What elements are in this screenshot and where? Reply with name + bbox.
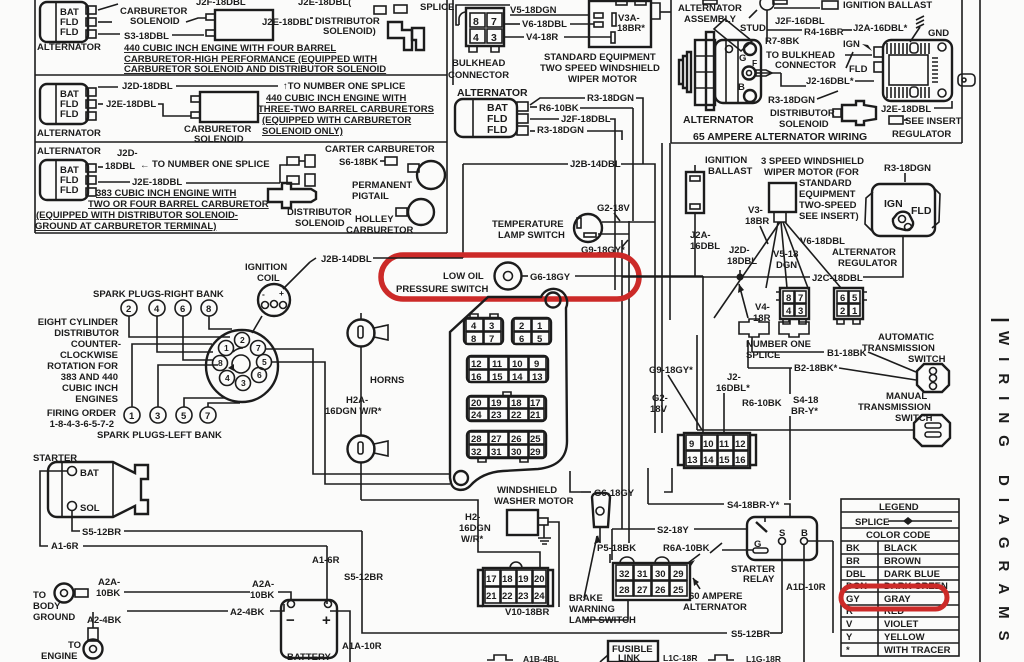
svg-text:CONNECTOR: CONNECTOR <box>775 60 836 71</box>
svg-text:14: 14 <box>703 455 714 466</box>
svg-text:HOLLEY: HOLLEY <box>355 214 394 225</box>
horn 1 <box>348 313 389 347</box>
svg-text:THREE-TWO BARREL CARBURETORS: THREE-TWO BARREL CARBURETORS <box>258 104 434 115</box>
svg-text:DISTRIBUTOR: DISTRIBUTOR <box>770 108 835 119</box>
spark plugs left bank <box>97 407 222 441</box>
svg-text:5: 5 <box>181 411 187 422</box>
wire A2-4BK <box>87 604 284 628</box>
svg-text:BODY: BODY <box>33 601 61 612</box>
svg-text:16DBL: 16DBL <box>690 241 720 252</box>
svg-text:IGN: IGN <box>884 198 903 210</box>
svg-text:28: 28 <box>471 434 482 445</box>
svg-text:29: 29 <box>673 569 684 580</box>
svg-text:ASSEMBLY: ASSEMBLY <box>684 14 737 25</box>
svg-text:ALTERNATOR: ALTERNATOR <box>37 128 101 139</box>
svg-text:25: 25 <box>530 434 541 445</box>
svg-text:1: 1 <box>129 411 135 422</box>
svg-text:BAT: BAT <box>80 468 99 479</box>
svg-text:(EQUIPPED WITH CARBURETOR: (EQUIPPED WITH CARBURETOR <box>262 115 411 126</box>
wires R4 J2A 65amp <box>767 16 949 42</box>
svg-text:V5-18: V5-18 <box>773 249 798 260</box>
svg-text:STUD: STUD <box>740 23 766 34</box>
svg-text:FLD: FLD <box>60 109 79 120</box>
svg-text:S5-12BR: S5-12BR <box>82 527 121 538</box>
svg-text:SOLENOID: SOLENOID <box>130 16 180 27</box>
svg-text:4: 4 <box>786 306 792 317</box>
svg-text:7: 7 <box>256 343 261 353</box>
svg-text:L1G-18R: L1G-18R <box>746 654 781 662</box>
wires starter S5 A1 <box>40 471 727 633</box>
wire B1-18BK <box>697 335 916 430</box>
svg-text:J2F-18DBL: J2F-18DBL <box>561 114 611 125</box>
svg-text:CUBIC INCH: CUBIC INCH <box>62 383 118 394</box>
svg-text:R3-18DGN: R3-18DGN <box>587 93 634 104</box>
svg-text:R6A-10BK: R6A-10BK <box>663 543 710 554</box>
svg-text:SOLENOID): SOLENOID) <box>323 26 376 37</box>
wire S4-18BR-Y lower <box>648 468 790 517</box>
3 speed wiper motor symbol <box>714 183 841 318</box>
svg-text:BROWN: BROWN <box>884 556 921 567</box>
svg-text:TWO OR FOUR BARREL CARBURETOR: TWO OR FOUR BARREL CARBURETOR <box>88 199 269 210</box>
svg-text:G6-18GY: G6-18GY <box>530 272 571 283</box>
svg-text:G6-18GY: G6-18GY <box>594 488 635 499</box>
svg-text:*: * <box>846 645 850 656</box>
svg-text:17: 17 <box>486 574 497 585</box>
right page rule <box>979 0 981 662</box>
wire S5-12BR lower right <box>731 541 833 640</box>
svg-text:VIOLET: VIOLET <box>884 619 919 630</box>
svg-text:J2E-18DBL: J2E-18DBL <box>106 99 156 110</box>
svg-text:3: 3 <box>155 411 160 422</box>
starter relay <box>731 517 817 585</box>
wire J2B-14DBL upper <box>463 159 655 258</box>
svg-text:Y: Y <box>846 632 853 643</box>
65 ampere box border <box>671 0 962 143</box>
svg-text:19: 19 <box>518 574 529 585</box>
svg-text:IGNITION: IGNITION <box>245 262 287 273</box>
to body ground <box>33 584 88 624</box>
svg-text:GROUND: GROUND <box>33 612 75 623</box>
svg-text:5: 5 <box>262 357 267 367</box>
svg-text:21: 21 <box>530 410 541 421</box>
wire R6A-10BK <box>663 543 722 566</box>
svg-text:8: 8 <box>206 304 211 315</box>
svg-text:SEE INSERT): SEE INSERT) <box>799 211 859 222</box>
svg-text:28: 28 <box>619 585 630 596</box>
svg-text:4: 4 <box>154 304 160 315</box>
svg-text:DISTRIBUTOR: DISTRIBUTOR <box>54 328 119 339</box>
svg-text:R6-10BK: R6-10BK <box>742 398 782 409</box>
red oval annotation low oil <box>381 255 639 299</box>
battery <box>281 600 337 662</box>
svg-text:18: 18 <box>502 574 513 585</box>
svg-text:ROTATION FOR: ROTATION FOR <box>47 361 118 372</box>
svg-text:3: 3 <box>489 321 494 332</box>
svg-text:S4-18: S4-18 <box>793 395 818 406</box>
svg-text:ALTERNATOR: ALTERNATOR <box>683 602 747 613</box>
svg-text:29: 29 <box>530 447 541 458</box>
svg-text:1: 1 <box>224 343 229 353</box>
svg-text:B: B <box>738 82 745 93</box>
svg-text:26: 26 <box>655 585 666 596</box>
svg-text:S3-18DBL: S3-18DBL <box>124 31 169 42</box>
svg-text:G2-: G2- <box>652 393 668 404</box>
svg-text:A1A-10R: A1A-10R <box>342 641 382 652</box>
svg-text:TO NUMBER ONE SPLICE: TO NUMBER ONE SPLICE <box>152 159 270 170</box>
svg-text:32: 32 <box>471 447 482 458</box>
svg-text:LINK: LINK <box>618 653 640 662</box>
svg-text:−: − <box>286 612 295 629</box>
svg-text:A2-4BK: A2-4BK <box>87 615 121 626</box>
svg-text:B1-18BK: B1-18BK <box>827 348 867 359</box>
svg-text:P5-18BK: P5-18BK <box>597 543 636 554</box>
svg-text:4: 4 <box>471 321 477 332</box>
svg-text:SPARK PLUGS-RIGHT BANK: SPARK PLUGS-RIGHT BANK <box>93 289 224 300</box>
svg-text:27: 27 <box>637 585 648 596</box>
svg-text:J2C-18DBL: J2C-18DBL <box>812 273 863 284</box>
svg-text:TO: TO <box>33 590 46 601</box>
wire S2-18Y <box>612 525 753 560</box>
svg-text:TEMPERATURE: TEMPERATURE <box>492 219 564 230</box>
svg-text:2: 2 <box>240 335 245 345</box>
svg-text:NUMBER ONE: NUMBER ONE <box>746 339 811 350</box>
svg-text:GY: GY <box>846 594 860 605</box>
svg-text:BRAKE: BRAKE <box>569 593 603 604</box>
wiring diagrams vertical title <box>991 320 1012 653</box>
svg-text:ENGINE: ENGINE <box>41 651 77 662</box>
svg-text:16DBL*: 16DBL* <box>716 383 750 394</box>
svg-text:↑TO NUMBER ONE SPLICE: ↑TO NUMBER ONE SPLICE <box>283 81 405 92</box>
V3 V5 V6 V4 labels <box>745 205 845 324</box>
svg-text:J2B-14DBL: J2B-14DBL <box>321 254 372 265</box>
wire B2-18BK* <box>748 340 916 394</box>
svg-text:GROUND AT CARBURETOR TERMINAL): GROUND AT CARBURETOR TERMINAL) <box>35 221 216 232</box>
red oval annotation GY gray <box>841 586 947 609</box>
plug wires left bank <box>132 344 240 407</box>
svg-text:LAMP SWITCH: LAMP SWITCH <box>498 230 565 241</box>
svg-text:CONNECTOR: CONNECTOR <box>448 70 509 81</box>
R3-18DGN distributor solenoid 65amp <box>768 91 876 130</box>
svg-text:18DBL: 18DBL <box>105 161 135 172</box>
svg-text:V6-18DBL: V6-18DBL <box>522 19 567 30</box>
wires insert 3 <box>98 148 287 188</box>
alternator regulator symbol <box>865 184 940 236</box>
svg-text:6: 6 <box>519 334 524 345</box>
J2E see insert regulator 65amp <box>881 101 962 140</box>
svg-text:25: 25 <box>673 585 684 596</box>
svg-text:24: 24 <box>471 410 482 421</box>
svg-text:7: 7 <box>798 293 803 304</box>
svg-text:ALTERNATOR: ALTERNATOR <box>37 146 101 157</box>
svg-text:J2B-14DBL: J2B-14DBL <box>570 159 621 170</box>
svg-text:CARBURETOR SOLENOID AND DISTRI: CARBURETOR SOLENOID AND DISTRIBUTOR SOLE… <box>124 64 386 75</box>
svg-text:GND: GND <box>928 28 949 39</box>
svg-text:HORNS: HORNS <box>370 375 404 386</box>
bottom label L1C <box>663 653 697 662</box>
temperature lamp switch <box>492 203 655 256</box>
svg-text:R3-18DGN: R3-18DGN <box>768 95 815 106</box>
svg-text:W/R*: W/R* <box>461 534 483 545</box>
svg-text:DISTRIBUTOR: DISTRIBUTOR <box>287 207 352 218</box>
alternator symbol main <box>455 87 528 137</box>
svg-text:12: 12 <box>471 359 482 370</box>
automatic transmission switch <box>862 332 949 392</box>
svg-text:13: 13 <box>532 372 543 383</box>
svg-text:J2E-18DBL: J2E-18DBL <box>881 104 931 115</box>
svg-text:BR: BR <box>846 556 860 567</box>
insert box borders top-left <box>35 0 453 233</box>
svg-text:21: 21 <box>486 591 497 602</box>
number one splice symbols <box>739 319 811 361</box>
cell group 4 3 / 8 7 <box>464 314 503 345</box>
wires from main alternator <box>530 93 643 143</box>
svg-text:ALTERNATOR: ALTERNATOR <box>678 3 742 14</box>
svg-text:4: 4 <box>473 32 479 44</box>
svg-text:22: 22 <box>511 410 522 421</box>
svg-text:-: - <box>262 289 265 299</box>
svg-text:9: 9 <box>689 439 694 450</box>
svg-text:15: 15 <box>492 372 503 383</box>
svg-text:J2D-: J2D- <box>117 148 138 159</box>
svg-text:WARNING: WARNING <box>569 604 615 615</box>
vertical wire bundle center <box>615 108 670 543</box>
svg-text:1: 1 <box>537 321 543 332</box>
svg-text:7: 7 <box>491 16 497 28</box>
svg-text:20: 20 <box>471 398 482 409</box>
svg-text:J2D-18DBL: J2D-18DBL <box>122 81 173 92</box>
svg-text:G2-18V: G2-18V <box>597 203 630 214</box>
svg-text:V: V <box>846 619 853 630</box>
svg-text:A2A-: A2A- <box>98 577 120 588</box>
svg-text:8: 8 <box>471 334 476 345</box>
standard two speed wiper motor <box>540 1 671 85</box>
svg-text:R3-18DGN: R3-18DGN <box>884 163 931 174</box>
svg-text:16: 16 <box>471 372 482 383</box>
svg-text:16DGN W/R*: 16DGN W/R* <box>325 406 382 417</box>
svg-text:440 CUBIC INCH ENGINE WITH FOU: 440 CUBIC INCH ENGINE WITH FOUR BARREL <box>124 43 336 54</box>
svg-text:SPLICE: SPLICE <box>855 517 889 528</box>
svg-text:6: 6 <box>257 370 262 380</box>
svg-text:A1D-10R: A1D-10R <box>786 582 826 593</box>
svg-text:DBL: DBL <box>846 569 866 580</box>
svg-text:GRAY: GRAY <box>884 594 911 605</box>
svg-text:IGNITION BALLAST: IGNITION BALLAST <box>843 0 932 11</box>
svg-text:A1-6R: A1-6R <box>312 555 340 566</box>
svg-text:G: G <box>739 53 746 64</box>
svg-text:AUTOMATIC: AUTOMATIC <box>878 332 934 343</box>
svg-text:18V: 18V <box>650 404 668 415</box>
svg-text:J2-16DBL*: J2-16DBL* <box>806 76 854 87</box>
svg-text:32: 32 <box>619 569 630 580</box>
connector 8 7 4 3 <box>776 288 809 324</box>
svg-text:EQUIPMENT: EQUIPMENT <box>799 189 856 200</box>
svg-text:FLD: FLD <box>60 185 79 196</box>
svg-text:SOLENOID: SOLENOID <box>295 218 345 229</box>
60 ampere alternator label <box>683 578 747 613</box>
svg-text:15: 15 <box>719 455 730 466</box>
svg-text:TWO-SPEED: TWO-SPEED <box>799 200 857 211</box>
legend table <box>841 499 959 656</box>
svg-text:B2-18BK*: B2-18BK* <box>794 363 838 374</box>
bottom connector glyph right <box>708 654 781 662</box>
carburetor solenoid insert 1 <box>98 4 273 42</box>
svg-text:ALTERNATOR: ALTERNATOR <box>683 114 754 126</box>
wire S4-18BR-Y upper labels <box>742 395 818 500</box>
svg-text:LOW OIL: LOW OIL <box>443 271 484 282</box>
svg-text:RELAY: RELAY <box>743 574 775 585</box>
svg-text:IGN: IGN <box>843 39 860 50</box>
bulkhead connector top <box>448 8 509 81</box>
permanent pigtail / holley insert 3 <box>346 180 434 236</box>
svg-text:1: 1 <box>852 306 858 317</box>
svg-text:COUNTER-: COUNTER- <box>71 339 121 350</box>
svg-text:30: 30 <box>655 569 666 580</box>
wire J2C-18DBL <box>622 236 903 284</box>
svg-text:J2E-18DBL(: J2E-18DBL( <box>298 0 352 8</box>
ignition ballast top right <box>774 0 932 11</box>
svg-text:6: 6 <box>840 293 845 304</box>
svg-text:7: 7 <box>489 334 494 345</box>
svg-text:TRANSMISSION: TRANSMISSION <box>862 343 935 354</box>
to engine ground <box>41 628 103 662</box>
svg-text:9: 9 <box>534 359 539 370</box>
svg-text:CARTER CARBURETOR: CARTER CARBURETOR <box>325 144 435 155</box>
wires bulkhead to wiper motor <box>456 5 611 43</box>
svg-text:10: 10 <box>512 359 523 370</box>
svg-text:J2F-16DBL: J2F-16DBL <box>775 16 825 27</box>
3 speed wiper motor text <box>761 156 864 222</box>
alternator assembly labels <box>678 0 825 42</box>
svg-text:H2-: H2- <box>465 512 480 523</box>
cell group 20 19 18 17 <box>467 392 546 421</box>
svg-text:31: 31 <box>491 447 502 458</box>
cell group 12 11 10 9 <box>467 356 548 383</box>
ignition coil <box>245 262 310 316</box>
svg-text:SOL: SOL <box>80 503 100 514</box>
svg-text:14: 14 <box>512 372 523 383</box>
plug wires right bank <box>129 316 232 360</box>
svg-text:V4-: V4- <box>755 302 770 313</box>
svg-text:A2A-: A2A- <box>252 579 274 590</box>
svg-text:WINDSHIELD: WINDSHIELD <box>497 485 557 496</box>
wire A2A-10BK <box>96 577 291 601</box>
wire J2B-14DBL to coil <box>310 254 463 265</box>
svg-text:4: 4 <box>225 373 230 383</box>
svg-text:WIPER MOTOR (FOR: WIPER MOTOR (FOR <box>764 167 859 178</box>
svg-text:20: 20 <box>534 574 545 585</box>
svg-text:S5-12BR: S5-12BR <box>731 629 770 640</box>
wires R7 IGN TO BULKHEAD 65amp <box>756 36 975 87</box>
383 note insert 3 <box>35 188 269 232</box>
wire J2-16DBL lower <box>716 372 750 433</box>
svg-text:65 AMPERE ALTERNATOR WIRING: 65 AMPERE ALTERNATOR WIRING <box>693 131 867 143</box>
connector 6 5 2 1 <box>834 288 867 324</box>
svg-text:19: 19 <box>491 398 502 409</box>
svg-text:8: 8 <box>218 358 223 368</box>
svg-text:R4-16BR: R4-16BR <box>804 27 844 38</box>
svg-text:SOLENOID ONLY): SOLENOID ONLY) <box>262 126 343 137</box>
svg-text:S4-18BR-Y*: S4-18BR-Y* <box>727 500 780 511</box>
svg-text:J2A-16DBL*: J2A-16DBL* <box>853 23 908 34</box>
svg-text:J2F-18DBL: J2F-18DBL <box>196 0 246 8</box>
fusible link <box>600 641 658 662</box>
svg-text:R6-10BK: R6-10BK <box>539 103 579 114</box>
svg-text:BR-Y*: BR-Y* <box>791 406 818 417</box>
wire G9 G2 labels lower <box>649 365 702 430</box>
wire P5-18BK <box>597 543 636 563</box>
windshield washer motor <box>494 485 574 607</box>
top edge cut labels <box>196 0 787 8</box>
horn 2 <box>348 436 389 501</box>
svg-text:PRESSURE SWITCH: PRESSURE SWITCH <box>396 284 489 295</box>
svg-text:S5-12BR: S5-12BR <box>344 572 383 583</box>
svg-text:WITH TRACER: WITH TRACER <box>884 645 951 656</box>
svg-text:17: 17 <box>530 398 541 409</box>
svg-text:22: 22 <box>502 591 513 602</box>
svg-text:10BK: 10BK <box>250 590 274 601</box>
alternator regulator label <box>832 247 897 269</box>
svg-text:V4-18R: V4-18R <box>526 32 558 43</box>
svg-text:10: 10 <box>703 439 714 450</box>
svg-text:383 AND 440: 383 AND 440 <box>61 372 118 383</box>
svg-text:+: + <box>279 288 284 298</box>
svg-text:SPARK PLUGS-LEFT BANK: SPARK PLUGS-LEFT BANK <box>97 430 222 441</box>
svg-text:18: 18 <box>511 398 522 409</box>
svg-text:12: 12 <box>735 439 746 450</box>
ignition ballast resistor <box>686 155 753 277</box>
svg-text:FLD: FLD <box>487 124 508 136</box>
svg-text:WIRING DIAGRAMS: WIRING DIAGRAMS <box>995 331 1012 653</box>
svg-text:23: 23 <box>491 410 502 421</box>
svg-text:A1-6R: A1-6R <box>51 541 79 552</box>
svg-text:BALLAST: BALLAST <box>708 166 753 177</box>
svg-text:REGULATOR: REGULATOR <box>838 258 897 269</box>
svg-text:TWO SPEED WINDSHIELD: TWO SPEED WINDSHIELD <box>540 63 660 74</box>
svg-text:L1C-18R: L1C-18R <box>663 653 697 662</box>
svg-text:SOLENOID: SOLENOID <box>194 134 244 145</box>
svg-text:WASHER MOTOR: WASHER MOTOR <box>494 496 574 507</box>
wire G6-18GY lower <box>570 468 672 499</box>
svg-text:WIPER MOTOR: WIPER MOTOR <box>568 74 637 85</box>
svg-text:LEGEND: LEGEND <box>879 502 919 513</box>
svg-text:FIRING ORDER: FIRING ORDER <box>47 408 116 419</box>
svg-text:EIGHT CYLINDER: EIGHT CYLINDER <box>38 317 118 328</box>
svg-text:←: ← <box>140 160 150 171</box>
svg-text:5: 5 <box>537 334 543 345</box>
svg-text:YELLOW: YELLOW <box>884 632 925 643</box>
svg-text:SEE INSERT: SEE INSERT <box>905 116 962 127</box>
svg-text:3: 3 <box>491 32 497 44</box>
manual transmission switch <box>697 391 950 446</box>
svg-text:26: 26 <box>511 434 522 445</box>
svg-text:CLOCKWISE: CLOCKWISE <box>60 350 118 361</box>
distributor solenoid insert 1 <box>262 2 454 50</box>
440 four barrel note insert 1 <box>124 43 386 75</box>
svg-text:DARK BLUE: DARK BLUE <box>884 569 940 580</box>
svg-text:MANUAL: MANUAL <box>886 391 927 402</box>
svg-text:3: 3 <box>241 378 246 388</box>
svg-text:31: 31 <box>637 569 648 580</box>
bottom connector glyph left <box>487 654 559 662</box>
carter carburetor insert 3 <box>287 144 445 189</box>
svg-text:R7-8BK: R7-8BK <box>765 36 799 47</box>
svg-text:27: 27 <box>491 434 502 445</box>
svg-text:ENGINES: ENGINES <box>75 394 118 405</box>
voltage regulator 65amp <box>874 40 952 101</box>
svg-text:ALTERNATOR: ALTERNATOR <box>37 42 101 53</box>
svg-text:3 SPEED WINDSHIELD: 3 SPEED WINDSHIELD <box>761 156 864 167</box>
alternator drawing 65amp <box>679 19 867 143</box>
